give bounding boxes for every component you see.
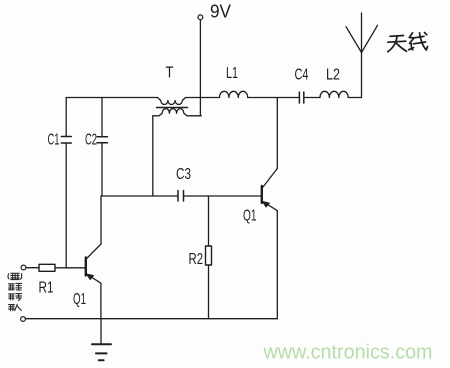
wire Q2 collector node vertical [276, 98, 278, 169]
antenna right arm [362, 25, 378, 52]
capacitor C1 top wire [65, 98, 67, 137]
capacitor C2 bottom wire [101, 143, 103, 196]
terminal 9V supply [198, 15, 203, 20]
ground symbol [92, 343, 111, 345]
svg-text:R2: R2 [189, 251, 204, 268]
svg-text:C2: C2 [85, 132, 97, 149]
inductor L1 [220, 91, 248, 97]
wire R2 bottom [208, 265, 210, 319]
antenna left arm [346, 27, 362, 53]
wire secondary left lead vertical [152, 116, 154, 196]
resistor R1 [39, 264, 55, 271]
transistor Q1 (right) emitter arrow [263, 202, 270, 208]
svg-text:Q1: Q1 [73, 291, 86, 308]
terminal input top [21, 265, 26, 270]
svg-text:www.cntronics.com: www.cntronics.com [263, 342, 433, 364]
svg-text:T: T [166, 65, 174, 82]
antenna mast [361, 13, 363, 98]
inductor L2 [320, 91, 348, 97]
svg-text:C1: C1 [48, 132, 60, 149]
wire R2 top [208, 196, 210, 246]
wire L1 to C4 [248, 97, 299, 99]
terminal input bottom [21, 317, 26, 322]
svg-text:R1: R1 [39, 280, 54, 297]
capacitor C4 [299, 92, 303, 103]
svg-text:9V: 9V [210, 2, 231, 22]
label audio signal input (vertical CJK, blurred) [8, 273, 22, 311]
wire C4 to L2 [305, 97, 321, 99]
wire terminal to R1 [26, 267, 39, 269]
transistor Q1 (right) emitter diagonal [263, 202, 278, 211]
wire 9V vertical to transformer secondary [199, 20, 201, 116]
wire mid rail right (C3 to Q2 base) [184, 195, 261, 197]
transformer T core [157, 107, 188, 109]
svg-text:C3: C3 [176, 166, 191, 183]
resistor R2 [206, 246, 212, 265]
wire bottom rail [26, 318, 278, 320]
wire Q1 left collector vertical [100, 196, 102, 244]
wire L2 to antenna [348, 97, 361, 99]
capacitor C1 bottom wire to Q1 base node [65, 144, 67, 269]
transistor Q1 (left) emitter diagonal [87, 274, 101, 283]
wire Q1 left emitter vertical [100, 283, 102, 318]
transistor Q1 (right, Q2 stage) collector diagonal [263, 169, 278, 188]
transistor Q1 (left) base wire [55, 267, 85, 269]
svg-text:L1: L1 [226, 65, 238, 82]
wire ground stem [100, 319, 102, 344]
wire Q2 emitter vertical [276, 211, 278, 319]
label tianxian (antenna) [388, 33, 428, 52]
transformer T primary winding [66, 98, 219, 105]
capacitor C1 [61, 137, 71, 144]
svg-text:C4: C4 [295, 67, 309, 84]
svg-text:Q1: Q1 [243, 208, 257, 225]
wire mid rail left (C2/collector node to C3) [101, 195, 177, 197]
capacitor C2 [97, 137, 108, 143]
transistor Q1 (left) emitter arrow [87, 274, 94, 280]
transformer T secondary winding [153, 109, 201, 116]
transistor Q1 (left) base bar [85, 258, 87, 276]
capacitor C2 top wire [101, 98, 103, 137]
capacitor C3 [178, 191, 184, 202]
svg-text:L2: L2 [326, 67, 340, 84]
transistor Q1 (left) collector diagonal [87, 244, 101, 259]
transistor Q1 (right) base bar [261, 186, 263, 203]
